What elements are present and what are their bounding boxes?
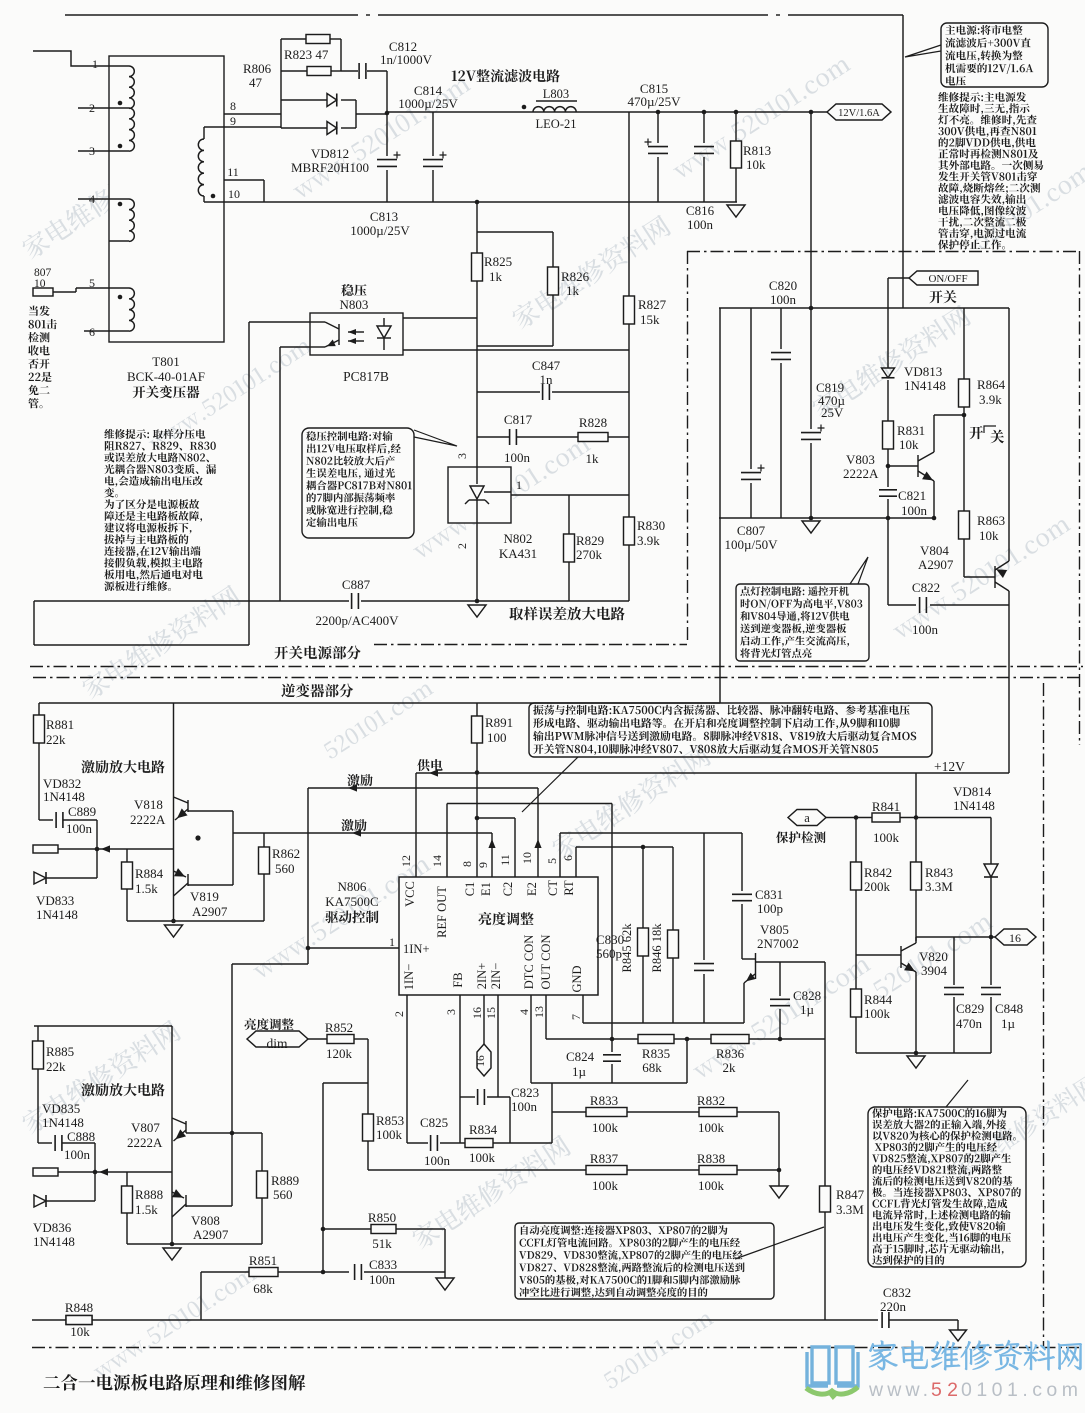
pin 11 C2 wire <box>514 818 516 877</box>
svg-text:+12V: +12V <box>934 759 965 774</box>
svg-text:100k: 100k <box>698 1120 725 1135</box>
wire opto cathode right <box>403 349 629 351</box>
wire sampling column <box>476 346 478 467</box>
transistor V820 <box>900 946 902 968</box>
svg-text:C831: C831 <box>755 887 783 902</box>
svg-text:100k: 100k <box>592 1120 619 1135</box>
svg-text:2N7002: 2N7002 <box>757 936 799 951</box>
diode VD812 lower <box>281 127 327 129</box>
pin 14 REF wire <box>446 804 448 878</box>
svg-text:1N4148: 1N4148 <box>36 907 78 922</box>
label jili 1 <box>347 774 372 786</box>
capacitor C825 <box>407 1142 428 1144</box>
svg-text:4: 4 <box>517 1009 531 1015</box>
T801 winding pins 5-6 <box>109 287 129 289</box>
svg-text:16: 16 <box>475 1055 487 1067</box>
wire feedback to dim column <box>323 1082 368 1084</box>
resistor R851 <box>201 1271 249 1273</box>
capacitor C847 <box>477 391 540 393</box>
T801 polarity dots <box>118 101 123 106</box>
svg-text:RT: RT <box>562 880 576 896</box>
svg-text:560p: 560p <box>596 946 622 961</box>
wire drive signal 2 to pin10 <box>308 787 538 789</box>
pin 2 wire <box>78 107 109 109</box>
svg-text:100p: 100p <box>757 901 783 916</box>
label protect detect <box>776 831 826 843</box>
wire DTC row <box>531 1082 687 1084</box>
label jili 2 <box>341 819 366 831</box>
capacitor C821 <box>887 466 889 487</box>
svg-text:120k: 120k <box>326 1046 353 1061</box>
capacitor C830 <box>703 833 705 960</box>
svg-text:1k: 1k <box>566 283 580 298</box>
svg-text:12: 12 <box>399 855 413 867</box>
svg-text:3.9k: 3.9k <box>979 392 1002 407</box>
svg-text:10k: 10k <box>746 157 766 172</box>
svg-text:C822: C822 <box>912 580 940 595</box>
wire inverter top rail <box>39 702 720 704</box>
capacitor C889 <box>39 819 53 821</box>
ground bottom right <box>957 1320 959 1330</box>
wire drive2 riser <box>231 964 233 1133</box>
svg-text:15: 15 <box>484 1007 498 1019</box>
svg-text:R832: R832 <box>697 1093 725 1108</box>
pin 6 RT wire <box>575 847 577 877</box>
svg-text:R862: R862 <box>272 846 300 861</box>
callout pointer of regulator box <box>414 430 457 446</box>
svg-text:9: 9 <box>230 114 236 128</box>
svg-text:N802: N802 <box>504 531 533 546</box>
wire left return down <box>33 601 35 645</box>
wire R825/R826 bottom row <box>477 345 553 347</box>
wire feedback column right <box>551 1083 553 1143</box>
svg-text:V819: V819 <box>190 889 219 904</box>
resistor R881 <box>38 703 40 715</box>
pin 10 wire / secondary return <box>204 201 737 203</box>
svg-text:R851: R851 <box>249 1253 277 1268</box>
pin 13 wire <box>545 995 547 1039</box>
optocoupler PC817B box <box>310 313 403 355</box>
svg-text:470µ/25V: 470µ/25V <box>628 94 682 109</box>
resistor R845 62k <box>641 845 646 850</box>
node R851 C833 <box>321 1270 326 1275</box>
resistor R889 <box>261 1133 263 1171</box>
node C807 bottom <box>809 516 814 521</box>
switch symbol wire <box>963 415 965 511</box>
capacitor C822 <box>888 604 916 606</box>
border dash-dot top of right column <box>687 251 1079 253</box>
svg-text:2222A: 2222A <box>843 466 879 481</box>
svg-text:R842: R842 <box>864 865 892 880</box>
wire drive signal 1 to pin9 <box>233 832 492 834</box>
svg-text:R853: R853 <box>376 1113 404 1128</box>
svg-text:8: 8 <box>230 99 236 113</box>
svg-text:KA431: KA431 <box>499 546 537 561</box>
svg-text:R827: R827 <box>638 297 667 312</box>
svg-text:51k: 51k <box>372 1236 392 1251</box>
svg-text:2222A: 2222A <box>127 1135 163 1150</box>
svg-text:5: 5 <box>545 858 559 864</box>
logo site name <box>869 1340 1082 1371</box>
svg-text:MBRF20H100: MBRF20H100 <box>291 160 369 175</box>
ground driver1 <box>165 925 183 937</box>
svg-text:100n: 100n <box>64 1147 91 1162</box>
svg-text:14: 14 <box>430 855 444 867</box>
wire C821 down to C822 <box>887 518 889 605</box>
svg-text:C887: C887 <box>342 577 371 592</box>
wire a node <box>826 817 872 819</box>
svg-text:100k: 100k <box>592 1178 619 1193</box>
svg-text:T801: T801 <box>152 354 179 369</box>
svg-text:1N4148: 1N4148 <box>42 1115 84 1130</box>
ground error amp <box>468 605 486 617</box>
svg-text:C807: C807 <box>737 523 766 538</box>
wire net16 row <box>916 936 995 938</box>
pin 1 wire <box>33 51 109 66</box>
svg-text:5: 5 <box>89 276 95 290</box>
svg-text:68k: 68k <box>642 1060 662 1075</box>
svg-text:12V/1.6A: 12V/1.6A <box>838 108 880 119</box>
svg-text:E2: E2 <box>525 882 539 896</box>
wire opto collector to sampling <box>249 321 310 323</box>
wire driver2 output frame <box>186 1132 262 1134</box>
resistor R885 <box>37 1026 39 1041</box>
pin 12 VCC wire <box>415 773 417 877</box>
svg-text:25V: 25V <box>821 405 844 420</box>
transistor V808 <box>185 1195 187 1207</box>
pin 4 wire <box>530 995 532 1083</box>
capacitor C815 electrolytic <box>656 110 661 115</box>
svg-text:1N4148: 1N4148 <box>953 798 995 813</box>
section title switching power <box>274 646 360 660</box>
svg-text:6: 6 <box>89 325 95 339</box>
svg-text:11: 11 <box>227 165 239 179</box>
capacitor C816 <box>702 110 707 115</box>
net flag 16 vertical <box>477 1044 491 1076</box>
svg-text:R826: R826 <box>561 269 590 284</box>
svg-text:E1: E1 <box>479 882 493 896</box>
callout pointer of auto brightness box <box>735 1227 824 1259</box>
net flag a <box>788 810 826 826</box>
callout pointer of main power box <box>905 45 941 57</box>
svg-text:R889: R889 <box>271 1173 299 1188</box>
svg-text:100k: 100k <box>698 1178 725 1193</box>
border dash-dot horizontal to mid <box>374 644 687 646</box>
svg-text:2200p/AC400V: 2200p/AC400V <box>315 613 399 628</box>
transistor V818 <box>173 703 175 921</box>
svg-text:CT: CT <box>546 880 560 896</box>
node C819 top <box>809 306 814 311</box>
wire right drop of rows <box>778 1112 780 1186</box>
callout pointer of oscillation box <box>522 757 578 812</box>
resistor R832 <box>699 1108 737 1117</box>
resistor R835 <box>638 1035 674 1044</box>
svg-text:100n: 100n <box>770 292 797 307</box>
svg-text:100k: 100k <box>864 1006 891 1021</box>
wire dim feedback column <box>322 1083 324 1272</box>
svg-text:47: 47 <box>249 75 263 90</box>
svg-text:3.3M: 3.3M <box>836 1202 864 1217</box>
wire R851 left drop <box>200 1272 202 1320</box>
svg-text:R847: R847 <box>836 1187 865 1202</box>
svg-text:C828: C828 <box>793 988 821 1003</box>
transistor V804 <box>994 566 996 588</box>
wire R835/R836 mid drop <box>686 1039 688 1083</box>
pin 8 wire <box>224 113 281 115</box>
svg-text:22k: 22k <box>46 732 66 747</box>
wire V804 collector to +12V rail <box>1008 591 1010 773</box>
svg-text:3: 3 <box>89 144 95 158</box>
svg-text:7: 7 <box>569 1014 583 1020</box>
wire IC ground pin 7 <box>582 995 584 1023</box>
KA431 symbol <box>476 467 478 484</box>
wire right drop from top rail <box>902 15 904 308</box>
section title inverter <box>281 684 353 698</box>
note box: protection circuit <box>868 1107 1026 1267</box>
wire +12V drop to R841 <box>915 773 917 818</box>
resistor R836 <box>711 1035 749 1044</box>
resistor R848 <box>66 1316 92 1325</box>
svg-text:C824: C824 <box>566 1049 595 1064</box>
svg-text:V807: V807 <box>131 1120 160 1135</box>
wire bottom long <box>32 1319 958 1321</box>
svg-text:100n: 100n <box>912 622 939 637</box>
svg-text:R806: R806 <box>243 61 272 76</box>
resistor R833 <box>586 1108 627 1117</box>
svg-text:A2907: A2907 <box>918 557 954 572</box>
connector 807 pin10 stub <box>33 288 53 296</box>
svg-text:3904: 3904 <box>921 963 948 978</box>
svg-text:R835: R835 <box>642 1046 670 1061</box>
svg-text:15k: 15k <box>640 312 660 327</box>
svg-text:R863: R863 <box>977 513 1005 528</box>
capacitor C832 <box>878 1310 889 1330</box>
arrow into driver1 base <box>101 845 110 852</box>
section border dash-dot upper <box>30 666 1083 668</box>
svg-text:3: 3 <box>455 453 469 459</box>
svg-text:3.9k: 3.9k <box>637 533 660 548</box>
wire R825-R826 top link <box>477 231 553 233</box>
wire pin1 tap <box>308 947 399 949</box>
svg-text:R836: R836 <box>716 1046 745 1061</box>
capacitor C807 electrolytic <box>750 308 752 469</box>
pin 15 wire <box>497 995 499 1097</box>
resistor R829 <box>568 495 570 534</box>
capacitor C848 <box>990 937 992 985</box>
pin 2 wire <box>406 995 408 1143</box>
diode VD812 upper <box>281 99 327 101</box>
note box: oscillation and control <box>529 703 932 757</box>
svg-text:1000µ/25V: 1000µ/25V <box>398 96 458 111</box>
svg-text:R844: R844 <box>864 992 893 1007</box>
svg-text:100: 100 <box>487 730 507 745</box>
svg-text:1k: 1k <box>586 451 600 466</box>
arrow drive signal 2 <box>348 784 357 791</box>
svg-text:10k: 10k <box>979 528 999 543</box>
svg-text:OUT CON: OUT CON <box>539 935 553 990</box>
svg-text:R831: R831 <box>897 423 925 438</box>
pin 9 E1 wire <box>491 833 493 877</box>
T801 secondary winding <box>204 126 224 128</box>
pin 16 wire <box>483 995 485 1044</box>
net flag dim <box>247 1031 308 1047</box>
wire C889 node vertical <box>96 820 98 878</box>
svg-text:BCK-40-01AF: BCK-40-01AF <box>127 369 205 384</box>
label N803 <box>341 284 366 296</box>
svg-text:100k: 100k <box>873 830 900 845</box>
svg-text:C821: C821 <box>898 488 926 503</box>
svg-text:DTC CON: DTC CON <box>522 935 536 990</box>
svg-text:R838: R838 <box>697 1151 725 1166</box>
capacitor C888 <box>38 1142 52 1144</box>
IC N806 KA7500C box <box>399 877 598 995</box>
svg-text:C1: C1 <box>463 882 477 897</box>
svg-text:ON/OFF: ON/OFF <box>928 273 967 285</box>
svg-text:R885: R885 <box>46 1044 74 1059</box>
svg-text:C2: C2 <box>501 882 515 897</box>
svg-text:1.5k: 1.5k <box>135 881 158 896</box>
node VCC supply <box>475 770 480 775</box>
pin 5 wire <box>75 288 77 292</box>
shunt regulator N802 KA431 box <box>448 467 511 523</box>
svg-text:16: 16 <box>470 1007 484 1019</box>
callout pointer of lamp control box <box>850 557 868 584</box>
svg-text:10: 10 <box>520 852 534 864</box>
resistor R838 <box>699 1166 737 1175</box>
connector stub upper driver <box>33 845 58 853</box>
border dash-dot vertical mid <box>687 251 689 644</box>
label brightness adjust IC <box>479 912 534 925</box>
svg-text:22k: 22k <box>46 1059 66 1074</box>
resistor R863 <box>963 510 965 512</box>
svg-text:2k: 2k <box>723 1060 737 1075</box>
wire R837 R838 row <box>368 1169 586 1171</box>
svg-text:10: 10 <box>34 278 46 290</box>
node driver1 base <box>95 847 100 852</box>
wire +12V supply rail <box>416 772 1009 774</box>
svg-text:1n: 1n <box>540 372 554 387</box>
resistor R837 <box>586 1166 627 1175</box>
pin 11 wire <box>224 179 264 181</box>
logo book icon <box>807 1347 858 1386</box>
wire C888 node vertical <box>94 1143 96 1201</box>
diode VD814 <box>990 818 992 865</box>
svg-text:470n: 470n <box>956 1016 983 1031</box>
svg-text:FB: FB <box>451 972 465 987</box>
svg-text:100n: 100n <box>504 450 531 465</box>
label sampling error amplifier <box>509 607 624 621</box>
svg-text:1N4148: 1N4148 <box>43 789 85 804</box>
border dash-dot bottom <box>32 1347 1083 1349</box>
svg-text:R829: R829 <box>576 533 604 548</box>
svg-text:1: 1 <box>92 57 98 71</box>
note box: auto brightness <box>515 1223 774 1299</box>
svg-text:L803: L803 <box>543 87 569 101</box>
svg-text:R823 47: R823 47 <box>284 47 329 62</box>
wire diode output <box>356 113 387 115</box>
wire diode join vertical <box>355 100 357 128</box>
node R864 V803 <box>962 413 967 418</box>
svg-text:GND: GND <box>570 965 584 992</box>
resistor R852 <box>308 1038 327 1040</box>
svg-text:C848: C848 <box>995 1001 1023 1016</box>
svg-text:2222A: 2222A <box>130 812 166 827</box>
svg-text:R845 62k: R845 62k <box>620 923 634 973</box>
note box: lamp ignition control <box>736 584 869 661</box>
capacitor C813 electrolytic <box>386 113 388 156</box>
wire box top 12V switched <box>719 307 1009 309</box>
svg-text:C816: C816 <box>686 203 715 218</box>
svg-text:C889: C889 <box>68 804 96 819</box>
pin 8 C1 wire <box>476 773 478 878</box>
ground driver2 <box>163 1248 181 1260</box>
svg-text:1µ: 1µ <box>572 1064 587 1079</box>
note: repair hint right <box>938 92 1026 102</box>
resistor R853 <box>367 1039 369 1114</box>
resistor R828 <box>578 433 608 442</box>
note: repair hint left <box>104 429 205 439</box>
svg-text:1k: 1k <box>489 269 503 284</box>
svg-text:1000µ/25V: 1000µ/25V <box>350 223 410 238</box>
svg-text:VD812: VD812 <box>311 146 349 161</box>
diode VD813 <box>887 278 889 368</box>
svg-text:C847: C847 <box>532 358 561 373</box>
resistor R823 <box>281 38 306 40</box>
label drive amplifier lower <box>81 1083 164 1096</box>
svg-text:100k: 100k <box>376 1127 403 1142</box>
svg-text:R841: R841 <box>872 799 900 814</box>
wire R833 R832 row <box>552 1111 586 1113</box>
svg-text:VD835: VD835 <box>42 1101 80 1116</box>
pin 4 wire <box>78 198 109 200</box>
L803 label rule <box>536 100 577 102</box>
label switch text 2 <box>969 426 983 439</box>
stray mark <box>195 835 200 840</box>
svg-text:R843: R843 <box>925 865 953 880</box>
svg-text:3.3M: 3.3M <box>925 879 953 894</box>
note box: regulator control <box>302 428 414 538</box>
capacitor C831 <box>741 833 743 891</box>
capacitor C833 <box>354 1264 356 1280</box>
svg-text:R888: R888 <box>135 1187 163 1202</box>
wire C823 drop <box>509 1097 511 1143</box>
capacitor C819 electrolytic <box>809 110 814 115</box>
svg-text:C829: C829 <box>956 1001 984 1016</box>
svg-text:C832: C832 <box>883 1285 911 1300</box>
resistor R841 <box>872 813 900 822</box>
wire R850 right drop <box>444 1229 446 1272</box>
wire opto anode right <box>403 317 477 319</box>
pin 10 E2 wire <box>537 788 539 877</box>
T801 primary winding pins 1-3 <box>109 65 129 67</box>
capacitor C812 <box>341 70 358 72</box>
resistor R884 <box>126 849 128 862</box>
svg-text:100n: 100n <box>424 1153 451 1168</box>
caption bottom <box>44 1374 306 1391</box>
resistor R847 <box>824 962 826 1186</box>
net flag 12V/1.6A <box>827 104 891 120</box>
svg-text:560: 560 <box>273 1187 293 1202</box>
svg-text:10k: 10k <box>70 1324 90 1339</box>
svg-text:220n: 220n <box>880 1299 907 1314</box>
transistor V805 2N7002 <box>742 958 755 960</box>
inductor L803 <box>522 105 527 110</box>
wire opto emitter down <box>280 346 310 348</box>
pin 9 wire <box>224 126 281 128</box>
svg-text:R837: R837 <box>590 1151 619 1166</box>
svg-text:KA7500C: KA7500C <box>325 894 378 909</box>
svg-text:VD813: VD813 <box>904 364 942 379</box>
